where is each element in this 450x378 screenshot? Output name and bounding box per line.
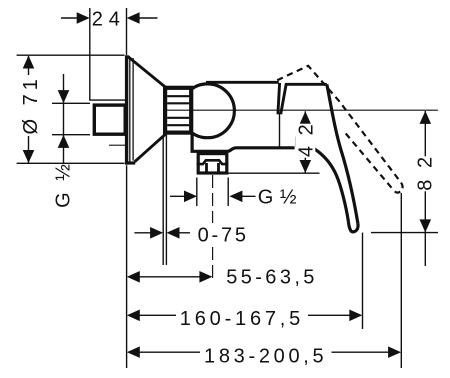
dim 42 line (304, 111, 306, 173)
dim row2 160-167,5 lines (139, 314, 351, 316)
lever raised tip cap (dashed) (394, 183, 403, 193)
wire: short pipe line below nut (109, 144, 125, 146)
arrow 24 right (127, 12, 140, 24)
dim G1/2 outlet lines (170, 195, 256, 197)
wire: body right face vertical (279, 114, 281, 147)
escutcheon bottom slant (135, 134, 166, 162)
dim G1/2 wall line (63, 74, 65, 163)
arrow 82 top (points up) (420, 111, 432, 124)
wire: body underside with step (192, 134, 295, 151)
handle boss wedge (278, 83, 286, 114)
label 24 (92, 9, 120, 28)
arrow G1/2 outlet right (points left) (229, 191, 242, 203)
wire: underside end tick (295, 137, 297, 147)
dim 24 lines (61, 17, 158, 19)
dim row1 55-63,5 line (139, 276, 201, 278)
escutcheon inner face lines (130, 57, 133, 162)
label O71 (rotated) (20, 75, 42, 136)
lever inner edge (solid) (296, 137, 348, 221)
label 183-200,5 (202, 345, 330, 365)
dim 82 bottom extension (handle tip) (371, 232, 438, 234)
svg-text:4 2: 4 2 (296, 122, 318, 157)
outlet axis centerline (dashed vertical) (212, 175, 214, 282)
svg-text:Ø 71: Ø 71 (20, 75, 42, 134)
arrow G1/2 outlet left (points right) (184, 191, 197, 203)
arrow 0-75 left (points right) (150, 227, 163, 239)
arrow O71 top (23, 56, 35, 69)
ref line wall plane (126, 165, 128, 368)
valve body circle (cartridge dome) (181, 84, 235, 138)
union nut (wall fitting) (94, 105, 125, 134)
outlet union nut (198, 154, 227, 173)
arrow O71 bottom (23, 150, 35, 163)
svg-text:24: 24 (92, 9, 126, 31)
dim G1/2 wall extension lines (52, 103, 90, 134)
label 82 (rotated) (414, 154, 436, 191)
knurled nut body (165, 88, 191, 133)
arrow row1 left (127, 271, 140, 283)
lever raised position (dashed outer) (277, 66, 401, 183)
svg-text:55-63,5: 55-63,5 (226, 267, 318, 289)
label 160-167,5 (178, 308, 306, 328)
lever outer edge (solid) (327, 84, 358, 223)
dim row3 183-200,5 lines (139, 351, 390, 353)
arrow row2 right (349, 310, 362, 322)
outlet nut facets (197, 160, 228, 164)
label 42 (rotated) (295, 122, 317, 158)
wire: wall pipe top contour (90, 8, 127, 100)
arrow 42 top (points up) (300, 111, 312, 124)
arrow row3 left (127, 346, 140, 358)
ref line dashed tip (400, 193, 402, 368)
arrow 24 left (77, 12, 90, 24)
label G1/2 wall (rotated) (53, 161, 75, 208)
handle top edge (285, 83, 327, 86)
escutcheon foot (125, 161, 135, 164)
arrow row1 right (199, 271, 212, 283)
ref line 0-75 pair (163, 134, 166, 265)
svg-text:0-75: 0-75 (198, 225, 249, 247)
escutcheon face (thick vertical) (125, 55, 128, 164)
label 0-75 (194, 223, 249, 244)
arrow G1/2 bottom (points up) (58, 135, 70, 148)
wire: body top line (206, 81, 279, 84)
dim 0-75 lines (134, 232, 190, 234)
lever tip arc (348, 222, 358, 232)
arrow 0-75 right (points left) (167, 227, 180, 239)
arrow 82 bottom (points down) (420, 219, 432, 232)
ref line handle tip (362, 233, 364, 329)
knurl ribs (167, 96, 189, 125)
dim G1/2 outlet extensions (197, 178, 228, 207)
dim 24 extension right (126, 8, 128, 55)
lever raised (dashed inner) (346, 133, 394, 190)
dim O71 line (28, 56, 30, 163)
axis centerline (horizontal) (166, 109, 438, 111)
arrow row3 right (388, 346, 401, 358)
dim 82 line (424, 111, 426, 266)
escutcheon top slant (128, 56, 166, 87)
svg-text:8 2: 8 2 (415, 154, 437, 191)
svg-text:183-200,5: 183-200,5 (204, 346, 327, 368)
arrow 42 bottom (points down) (300, 160, 312, 173)
dim O71 extension lines (17, 55, 125, 163)
svg-text:160-167,5: 160-167,5 (180, 308, 304, 330)
svg-text:G ½: G ½ (53, 161, 75, 208)
dim 42 bottom extension (227, 172, 320, 174)
arrow G1/2 top (points down) (58, 90, 70, 103)
svg-text:G ½: G ½ (258, 186, 297, 208)
arrow row2 left (127, 310, 140, 322)
